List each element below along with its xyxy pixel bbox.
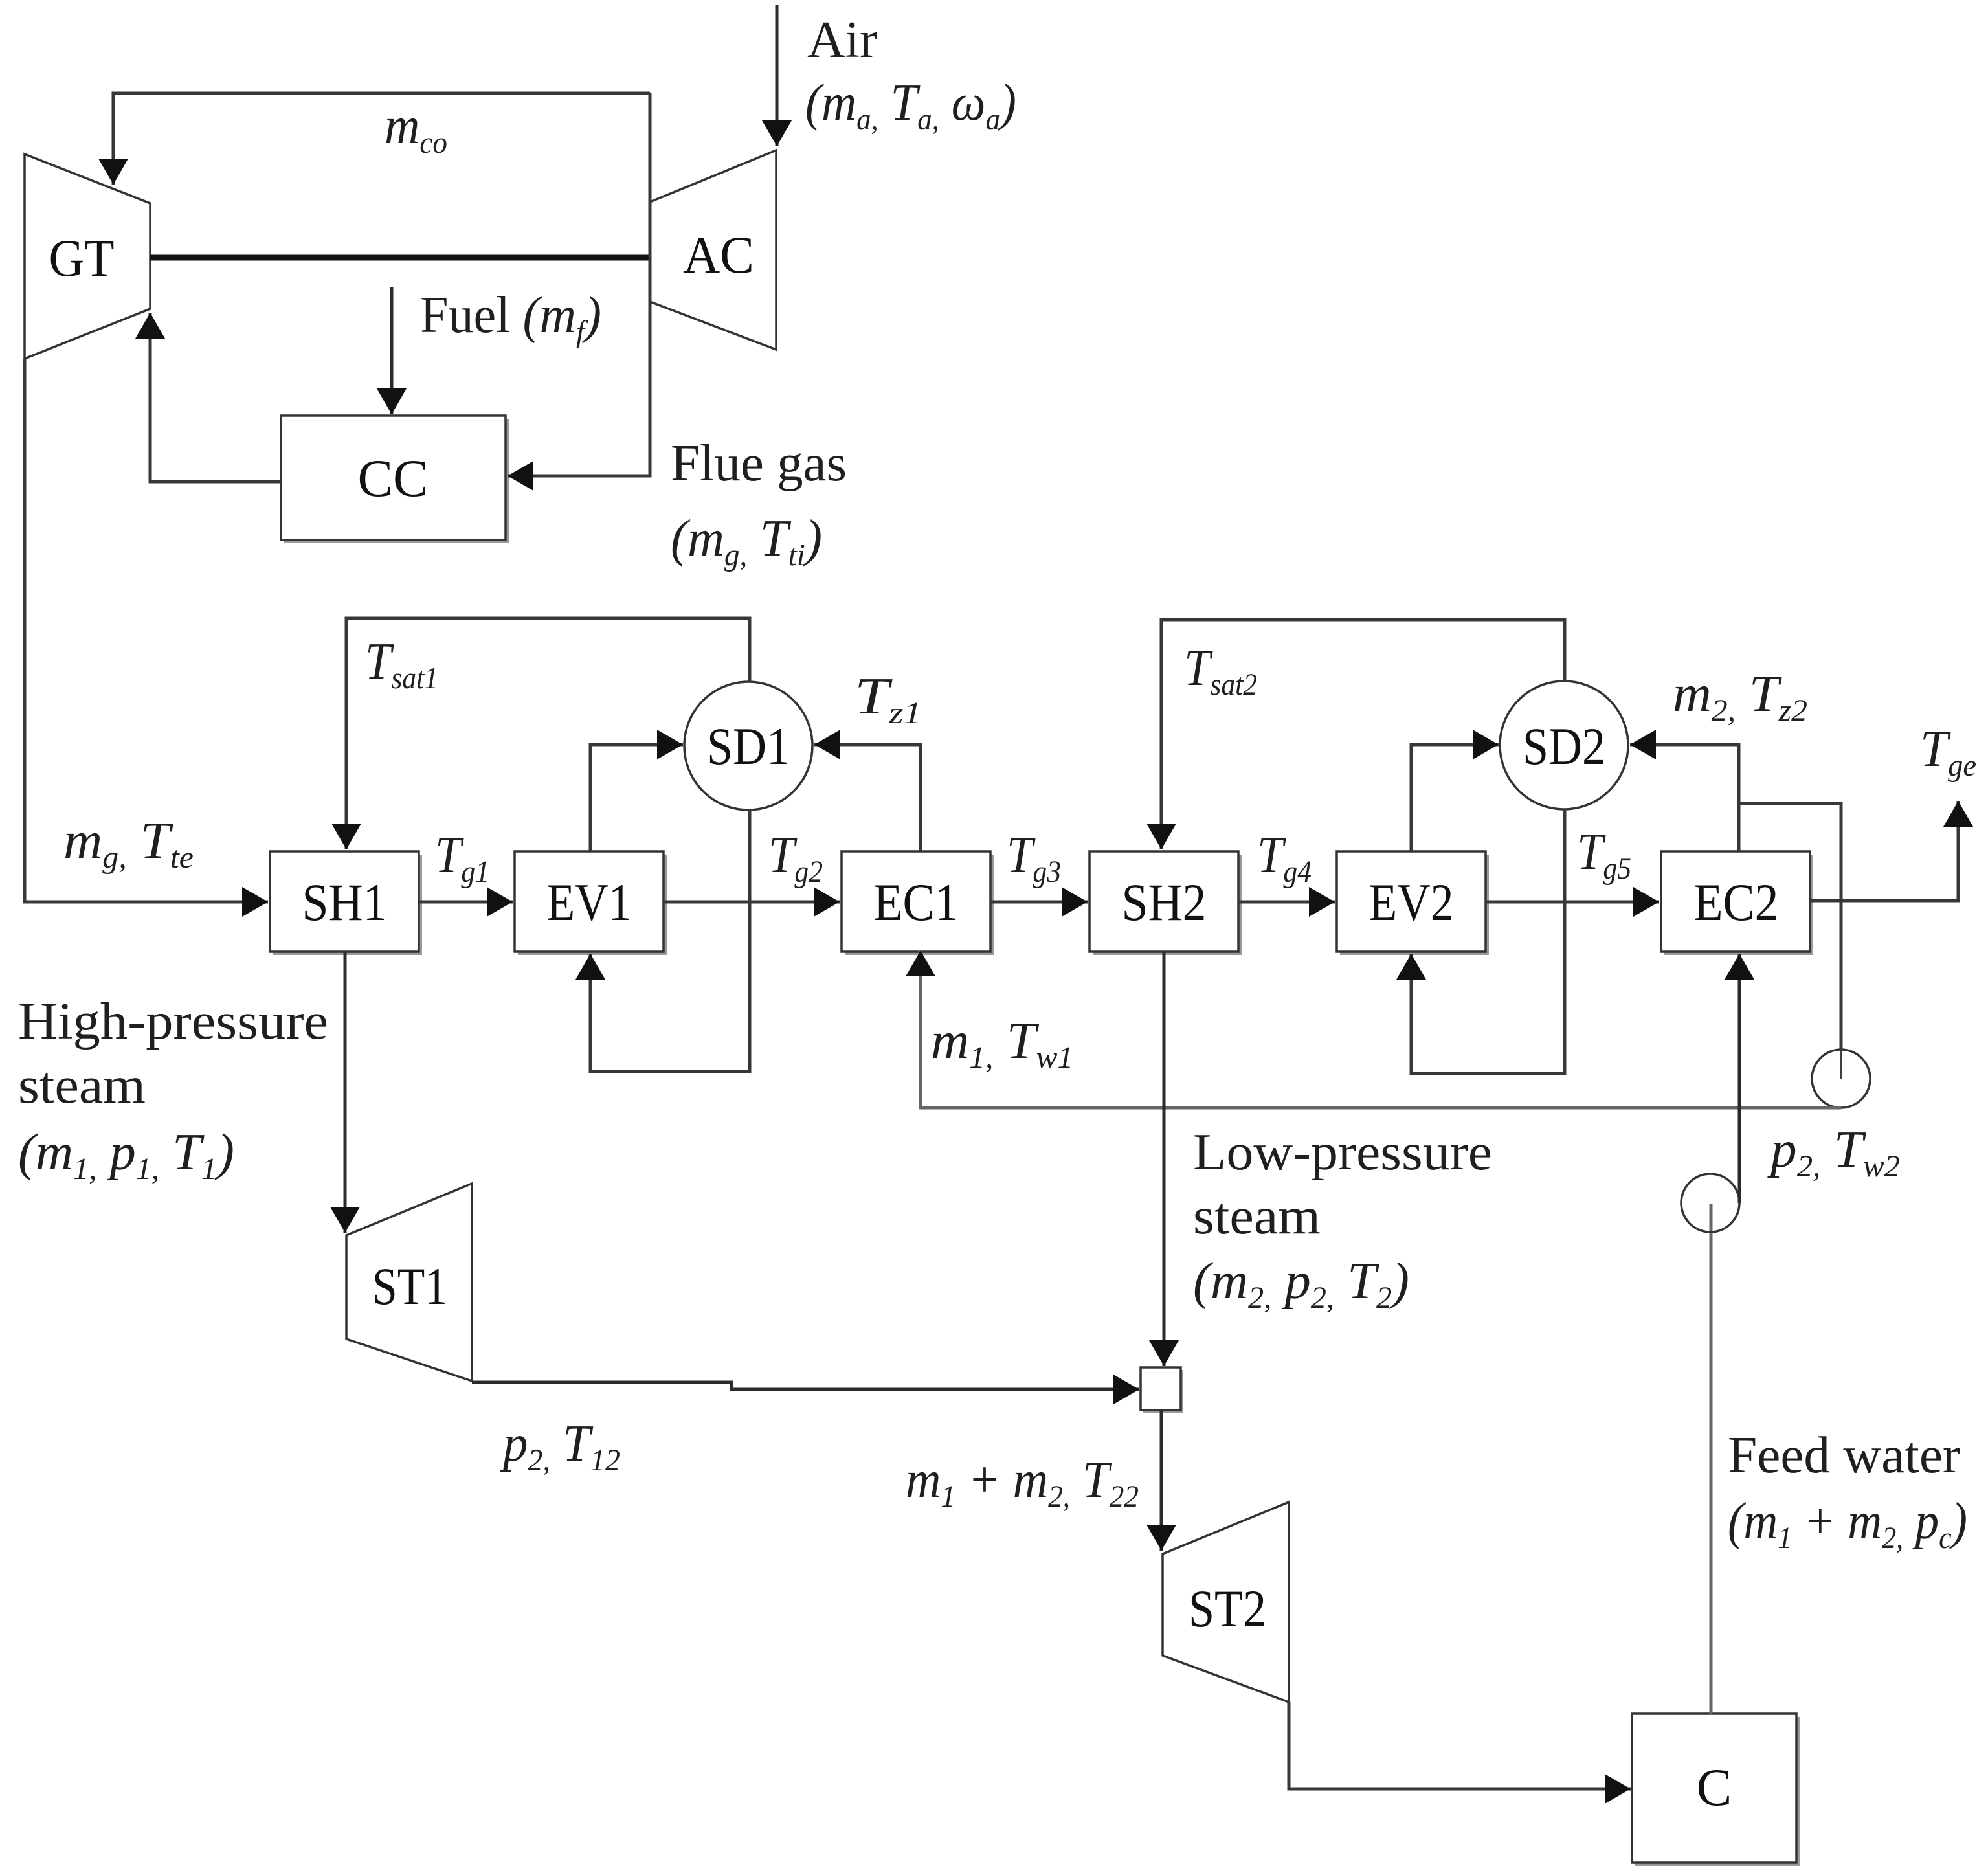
- svg-text:GT: GT: [49, 229, 115, 287]
- svg-text:CC: CC: [358, 449, 429, 508]
- evaporator EV2: [1337, 851, 1489, 955]
- svg-text:EC2: EC2: [1694, 873, 1779, 932]
- svg-text:EC1: EC1: [874, 873, 959, 932]
- wire EV2 to SD2 with arrow: [1411, 745, 1499, 851]
- wire EV1 to SD1 with arrow: [590, 745, 683, 851]
- wire gas exit EC2 with arrow up (Tge): [1810, 801, 1958, 901]
- wire gas EV2 to EC2: [1486, 901, 1659, 904]
- steam turbine ST2: [1163, 1502, 1289, 1702]
- svg-text:Flue gas: Flue gas: [671, 435, 847, 492]
- svg-text:EV2: EV2: [1369, 873, 1454, 932]
- wire m1,Tw1 feed water to EC1 with arrow: [921, 950, 1841, 1108]
- condenser C: [1632, 1714, 1800, 1866]
- wire p2,T12 from ST1 to mixing node with arrow: [472, 1382, 1139, 1389]
- turbine GT: [25, 154, 150, 359]
- svg-text:(m1 + m2, pc): (m1 + m2, pc): [1728, 1493, 1967, 1555]
- wire CC to GT with arrow: [150, 313, 281, 482]
- svg-text:EV1: EV1: [547, 873, 632, 932]
- svg-text:SD2: SD2: [1523, 717, 1605, 776]
- wire air inlet: [776, 5, 779, 146]
- wire gas EV1 to EC1: [664, 901, 840, 904]
- svg-text:ST2: ST2: [1189, 1579, 1266, 1638]
- svg-text:(ma, Ta, ωa): (ma, Ta, ωa): [805, 74, 1016, 137]
- wire gas SH2 to EV2: [1238, 901, 1335, 904]
- wire SD1 down-loop to EV1 with arrow: [590, 810, 750, 1072]
- wire gas EC1 to SH2: [990, 901, 1088, 904]
- wire flue gas: AC bottom to CC with arrow: [508, 93, 650, 476]
- wire EC1 up to SD1 with arrow (Tz1): [814, 745, 921, 851]
- mixing node square: [1141, 1367, 1183, 1413]
- svg-text:Feed water: Feed water: [1728, 1427, 1960, 1484]
- svg-text:SH1: SH1: [302, 873, 387, 932]
- wire m_co recirculation line with arrow into GT: [113, 93, 650, 185]
- compressor AC: [650, 150, 776, 350]
- svg-text:steam: steam: [18, 1057, 146, 1114]
- svg-text:steam: steam: [1193, 1188, 1321, 1245]
- svg-text:Low-pressure: Low-pressure: [1193, 1124, 1492, 1181]
- wire Tsat2 loop SD2 to SH2 with arrow: [1161, 620, 1565, 849]
- combustion chamber CC: [281, 416, 509, 543]
- superheater SH2: [1089, 851, 1242, 955]
- svg-text:SH2: SH2: [1122, 873, 1207, 932]
- wire fuel inlet with arrow into CC: [390, 287, 394, 414]
- steam turbine ST1: [346, 1184, 472, 1381]
- wire SH1 steam down to ST1 with arrow: [344, 952, 347, 1233]
- wire SH2 steam down to mixing node (low-pressure steam): [1163, 952, 1166, 1366]
- wire EC2 branch to pump P1: [1739, 803, 1841, 1050]
- shaft GT-AC: [150, 255, 650, 261]
- wire Tsat1 loop SD1 to SH1 with arrow: [346, 618, 750, 849]
- wire pump P2 up to EC2 with arrow (p2, Tw2): [1738, 954, 1741, 1203]
- economizer EC2: [1661, 851, 1813, 955]
- svg-text:Air: Air: [807, 12, 877, 69]
- svg-text:m1 + m2, T22: m1 + m2, T22: [906, 1452, 1139, 1514]
- svg-text:SD1: SD1: [707, 717, 790, 776]
- superheater SH1: [270, 851, 422, 955]
- svg-text:AC: AC: [683, 225, 754, 284]
- svg-text:Fuel (mf): Fuel (mf): [420, 287, 601, 349]
- wire gas SH1 to EV1: [419, 901, 513, 904]
- wire ST2 to condenser C with arrow: [1289, 1702, 1631, 1789]
- evaporator EV1: [515, 851, 667, 955]
- economizer EC1: [842, 851, 994, 955]
- wire feed water from C up to pump P2: [1710, 1204, 1713, 1714]
- svg-text:High-pressure: High-pressure: [18, 993, 328, 1050]
- wire mixing node down to ST2 with arrow: [1160, 1410, 1163, 1551]
- steam drum SD1: [684, 682, 812, 810]
- steam drum SD2: [1500, 681, 1628, 809]
- pump P2: [1681, 1174, 1739, 1232]
- svg-text:C: C: [1697, 1758, 1732, 1817]
- pump P1: [1812, 1050, 1870, 1108]
- wire SD2 down-loop to EV2 with arrow: [1411, 809, 1565, 1073]
- wire GT exhaust to SH1 (mg, Tte): [25, 359, 268, 902]
- svg-text:ST1: ST1: [372, 1257, 447, 1316]
- wire EC2 up to SD2 with arrow (m2, Tz2): [1630, 745, 1739, 851]
